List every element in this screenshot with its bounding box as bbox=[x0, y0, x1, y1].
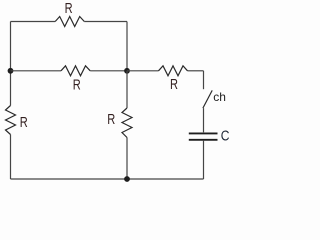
wire switch to capacitor bbox=[203, 108, 205, 132]
resistor R1 (top horizontal) bbox=[55, 17, 84, 27]
resistor R5 (middle vertical) bbox=[122, 108, 132, 138]
wire left node to row2 resistor bbox=[11, 70, 62, 72]
resistor R3 (right horizontal) bbox=[159, 66, 188, 76]
resistor R4 (left vertical) bbox=[6, 106, 16, 135]
svg-text:C: C bbox=[221, 127, 230, 144]
wire left rail upper bbox=[10, 22, 12, 106]
node C (bottom junction) bbox=[124, 176, 130, 182]
wire corner down to switch bbox=[203, 71, 205, 89]
svg-text:R: R bbox=[73, 76, 81, 93]
wire bottom rail bbox=[11, 178, 204, 180]
wire row2 resistor to middle node bbox=[90, 70, 127, 72]
svg-text:R: R bbox=[20, 114, 28, 131]
node A (left junction) bbox=[8, 68, 14, 74]
wire middle node to right resistor bbox=[127, 70, 159, 72]
wire top-right corner down to middle node bbox=[126, 22, 128, 71]
wire left rail lower bbox=[10, 135, 12, 180]
wire right resistor to switch corner bbox=[188, 70, 204, 72]
switch ch (open blade) bbox=[203, 90, 212, 108]
wire middle rail upper bbox=[126, 71, 128, 108]
capacitor C plates bbox=[189, 133, 218, 139]
wire capacitor to bottom rail bbox=[203, 141, 205, 179]
resistor R2 (middle horizontal) bbox=[61, 66, 90, 76]
svg-text:R: R bbox=[107, 111, 115, 128]
svg-text:ch: ch bbox=[213, 90, 226, 104]
wire middle rail lower bbox=[126, 138, 128, 180]
svg-text:R: R bbox=[170, 76, 178, 93]
node B (middle junction) bbox=[124, 68, 130, 74]
wire top resistor to top-right corner bbox=[84, 21, 127, 23]
svg-text:R: R bbox=[65, 0, 73, 17]
wire top-left to top resistor bbox=[11, 21, 56, 23]
